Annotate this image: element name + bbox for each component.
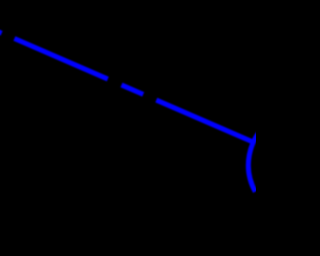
wire: dash-dot line, second long dash ending at circle bbox=[156, 100, 253, 142]
wire: dash-dot line, partial dash at top-left edge bbox=[0, 30, 2, 33]
wire: dash-dot line, short middle dash bbox=[122, 85, 144, 94]
node: dash-dot circle clipped by right edge, visible long-dash arc bbox=[248, 123, 268, 192]
wire: dash-dot line, first long dash bbox=[14, 39, 107, 80]
